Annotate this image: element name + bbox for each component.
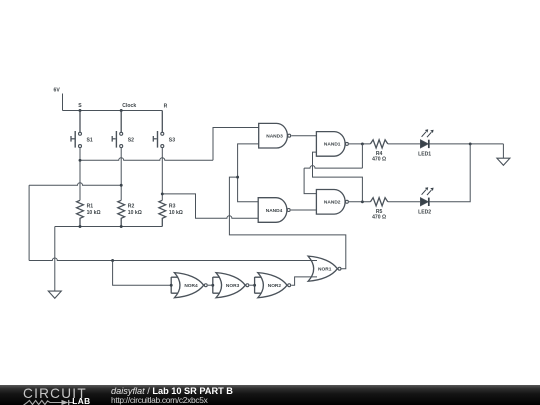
wire S2 column to R2	[120, 148, 122, 201]
NAND gate U-NAND4	[258, 198, 290, 223]
CircuitLab logo squiggle (resistor + diode)	[23, 398, 75, 405]
ground symbol left	[48, 291, 61, 298]
junction NAND1 output	[361, 142, 364, 145]
svg-text:R1: R1	[87, 204, 94, 210]
svg-text:S1: S1	[87, 137, 93, 143]
footer url	[111, 395, 208, 405]
wire NOR2 output to NOR1 input	[291, 277, 317, 285]
wire NAND2 output to NAND1 input (feedback Q)	[313, 152, 363, 202]
svg-text:Clock: Clock	[122, 103, 136, 109]
junction on rail at Clock column	[120, 109, 123, 112]
junction lower bus NOR-chain tap	[111, 259, 114, 262]
wire S node bus to NAND3	[80, 128, 259, 161]
svg-text:NOR3: NOR3	[226, 283, 240, 289]
svg-text:R: R	[164, 104, 168, 110]
resistor R4 470 ohm	[370, 140, 387, 163]
junction on rail at S column	[79, 109, 82, 112]
resistor R1 10 k-ohm	[77, 200, 101, 226]
footer bar	[0, 385, 540, 405]
junction NAND2 output	[361, 200, 364, 203]
wire R4 to LED1	[388, 143, 421, 145]
svg-text:NAND2: NAND2	[324, 200, 341, 206]
svg-text:R2: R2	[128, 204, 135, 210]
wire NOR3 output to NOR2	[250, 284, 255, 286]
NOR gate U-NOR3	[216, 273, 249, 298]
wire R node to NAND4 input	[162, 194, 258, 218]
NAND gate U-NAND2	[316, 190, 348, 215]
svg-text:NOR1: NOR1	[318, 267, 332, 273]
wire S3 column to R3	[161, 148, 163, 201]
wire NAND4 output to NAND2 input	[291, 209, 317, 211]
CircuitLab logo text CIRCUIT	[23, 386, 87, 401]
push-button switch S2	[112, 111, 134, 148]
wire NAND1 output to NAND2 input (feedback P)	[304, 144, 362, 194]
svg-text:S2: S2	[128, 137, 134, 143]
svg-text:470 Ω: 470 Ω	[372, 157, 386, 163]
wire NAND2 output to R5	[349, 201, 370, 203]
footer title daisyflat / Lab 10 SR PART B	[111, 386, 233, 396]
NOR gate U-NOR1	[308, 256, 341, 281]
svg-text:NOR2: NOR2	[268, 283, 282, 289]
LED LED1	[418, 129, 434, 157]
svg-text:NAND3: NAND3	[266, 134, 283, 140]
wire NAND3 output to NAND1 input	[291, 135, 316, 137]
svg-text:10 kΩ: 10 kΩ	[128, 210, 142, 216]
LED LED2	[418, 187, 434, 215]
wire NOR1 output feedback to NAND3/NAND4 node	[229, 177, 345, 269]
svg-text:R3: R3	[169, 204, 176, 210]
wire NAND1 output to R4	[349, 143, 370, 145]
svg-text:NAND1: NAND1	[324, 142, 341, 148]
junction S1 bottom on bus	[79, 159, 82, 162]
ground symbol right	[497, 158, 510, 165]
wire S1 column to R1	[79, 148, 81, 201]
svg-text:S: S	[78, 103, 82, 109]
wire Clock node to left rail	[29, 183, 121, 185]
push-button switch S1	[71, 111, 93, 148]
input tie bracket of NOR3	[211, 277, 219, 293]
svg-text:6V: 6V	[54, 87, 61, 93]
push-button switch S3	[153, 111, 175, 148]
NAND gate U-NAND1	[316, 132, 348, 157]
svg-text:LED2: LED2	[418, 209, 431, 215]
wire resistor-bottom bus	[55, 226, 163, 228]
svg-text:10 kΩ: 10 kΩ	[87, 210, 101, 216]
svg-text:10 kΩ: 10 kΩ	[169, 210, 183, 216]
svg-text:470 Ω: 470 Ω	[372, 215, 386, 221]
wire tap down to NOR4 input	[113, 261, 172, 286]
junction feedback node	[236, 176, 239, 179]
wire ground stem left	[54, 227, 56, 291]
resistor R5 470 ohm	[370, 198, 387, 221]
NOR gate U-NOR4	[174, 273, 207, 298]
CircuitLab logo text LAB	[72, 396, 90, 405]
junction R line at S3 column	[161, 192, 164, 195]
wire NOR4 output to NOR3	[208, 284, 213, 286]
svg-text:LED1: LED1	[418, 152, 431, 158]
svg-text:NOR4: NOR4	[184, 283, 198, 289]
NOR gate U-NOR2	[258, 273, 291, 298]
junction LED rail	[469, 142, 472, 145]
svg-text:NAND4: NAND4	[266, 208, 283, 214]
wire LED2 up to LED1 rail	[430, 144, 471, 202]
junction R2 bottom	[120, 225, 123, 228]
junction Clock line at S2 column	[120, 184, 123, 187]
wire left vertical rail	[28, 185, 30, 260]
wire top supply rail	[63, 110, 163, 112]
junction R1 bottom	[79, 225, 82, 228]
wire 6V stem	[62, 94, 64, 111]
input tie bracket of NOR4	[170, 277, 178, 293]
svg-text:S3: S3	[169, 137, 175, 143]
resistor R2 10 k-ohm	[118, 200, 142, 226]
wire R5 to LED2	[388, 201, 421, 203]
wire LED1 to right ground	[430, 144, 504, 158]
resistor R3 10 k-ohm	[159, 200, 183, 226]
wire lower clock bus to NOR1	[29, 258, 317, 261]
wire NAND3.in2 / NAND4.in1 tie	[238, 144, 259, 202]
NAND gate U-NAND3	[259, 123, 291, 148]
input tie bracket of NOR2	[253, 277, 261, 293]
